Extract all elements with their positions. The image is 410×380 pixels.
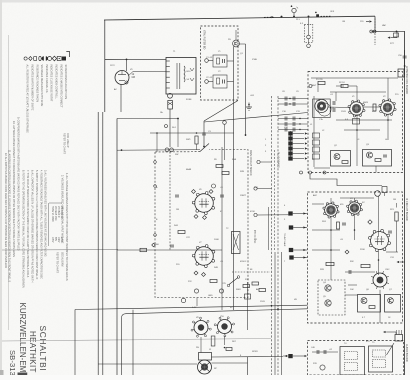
wire — [317, 83, 319, 92]
wire diagonal — [387, 343, 395, 355]
svg-text:AC: AC — [114, 88, 117, 91]
switch SW3 — [229, 278, 238, 285]
connector pin 10 — [289, 255, 293, 259]
terminal — [370, 30, 373, 33]
wire — [314, 167, 330, 169]
capacitor C40 — [317, 350, 319, 354]
trimmer — [320, 365, 325, 370]
terminal — [154, 185, 157, 188]
tube V6 6EA8 — [192, 192, 215, 215]
notes paragraph block — [4, 117, 68, 288]
capacitor C near top right — [374, 19, 376, 29]
bus wire horizontal — [75, 305, 308, 309]
terminal — [254, 187, 257, 190]
node junction — [177, 118, 179, 120]
terminal — [223, 121, 227, 125]
terminal — [154, 161, 157, 164]
transistor Q2 — [334, 154, 340, 160]
svg-text:AUDIO BOARD: AUDIO BOARD — [405, 344, 408, 362]
wire arrow — [271, 16, 274, 18]
wire — [177, 119, 179, 148]
resistor R63 — [211, 336, 215, 346]
diode D1 — [368, 220, 372, 224]
wire — [212, 362, 248, 364]
audio output board (dashed) — [308, 341, 404, 376]
tube V2 6EA8 — [379, 99, 396, 116]
resistor R4 — [373, 104, 376, 111]
svg-text:TUBE V1 6BZ6: TUBE V1 6BZ6 — [51, 206, 53, 222]
tube V4 6BE6 — [347, 200, 363, 216]
junction — [378, 259, 380, 261]
connector J3 — [404, 50, 406, 75]
wire — [117, 118, 178, 120]
svg-text:PH: PH — [196, 347, 199, 349]
svg-text:150V: 150V — [260, 301, 265, 303]
wire — [169, 109, 171, 147]
wires inside IF board — [312, 203, 324, 205]
svg-text:REFER TO CHART: REFER TO CHART — [56, 252, 59, 273]
bus wire vertical — [74, 310, 76, 376]
svg-text:ON: ON — [342, 21, 346, 23]
wire top right corner — [374, 16, 376, 31]
wire long vertical — [233, 47, 235, 311]
voltage chart table — [48, 203, 50, 246]
svg-text:8. REFER TO THE OPERATION SECT: 8. REFER TO THE OPERATION SECTION OF THE… — [22, 170, 25, 288]
trimmer — [194, 289, 198, 293]
tube V1 6BZ6 — [348, 100, 365, 117]
terminal — [307, 44, 311, 48]
svg-text:SLO: SLO — [172, 127, 177, 129]
wire — [330, 258, 332, 280]
resistor R2 — [341, 84, 348, 87]
svg-text:140V: 140V — [57, 237, 59, 243]
svg-text:47K: 47K — [372, 111, 376, 113]
connector pin 3 — [288, 141, 292, 145]
svg-text:27K: 27K — [188, 281, 192, 283]
resistor R40 — [195, 136, 198, 144]
wire — [247, 282, 249, 330]
wire — [375, 166, 377, 173]
resistor R30 — [369, 306, 375, 309]
bus wire vertical — [271, 96, 273, 375]
connector pin square — [288, 354, 292, 358]
svg-text:R2 1K: R2 1K — [339, 82, 345, 84]
transistor board box — [331, 151, 351, 167]
svg-text:HEATHKIT: HEATHKIT — [28, 331, 37, 373]
svg-text:6. ALL CAPACITOR VALUES IN UF: 6. ALL CAPACITOR VALUES IN UF UNLESS OTH… — [31, 170, 34, 283]
wire diagonal — [204, 113, 308, 123]
power transformer T1 box — [166, 58, 196, 95]
wire — [247, 357, 249, 375]
svg-text:VAC: VAC — [382, 24, 387, 27]
wire — [328, 106, 351, 109]
wire — [203, 121, 205, 146]
svg-text:INDICATES CHASSIS MTG CONNECT: INDICATES CHASSIS MTG CONNECT — [59, 65, 62, 109]
svg-text:KURZWELLEN-EM▌: KURZWELLEN-EM▌ — [17, 303, 28, 376]
wire — [348, 85, 357, 87]
svg-text:105V: 105V — [51, 237, 53, 243]
wire — [120, 84, 122, 112]
terminal — [154, 234, 157, 237]
tube V3 6BA6 — [323, 202, 339, 218]
svg-text:210V: 210V — [60, 237, 62, 243]
wire dashed — [169, 152, 171, 250]
transistor Q3 — [367, 152, 373, 158]
svg-text:6EA8: 6EA8 — [186, 168, 192, 171]
antenna coil board (dashed) — [308, 72, 403, 173]
svg-text:ALL RESISTORS RATED AT 1/2 WAT: ALL RESISTORS RATED AT 1/2 WATT UNLESS O… — [26, 65, 29, 134]
svg-text:OFF: OFF — [330, 11, 335, 13]
wire — [356, 150, 358, 166]
wire — [354, 198, 356, 202]
diode into right border — [397, 261, 400, 263]
wire — [260, 161, 271, 163]
tube V7 6BA6 — [192, 245, 215, 268]
transistor board box — [363, 150, 392, 167]
tube V5 6EA8 — [368, 229, 390, 251]
svg-text:RESISTANCE READINGS TAKEN: RESISTANCE READINGS TAKEN — [35, 65, 38, 103]
wire — [129, 72, 133, 76]
connector P4 — [395, 335, 403, 342]
wire dashed stub — [374, 34, 376, 46]
svg-text:117V: 117V — [110, 65, 115, 67]
svg-text:FUSE: FUSE — [186, 99, 192, 101]
svg-text:C1A: C1A — [316, 99, 321, 102]
bus wire vertical — [277, 96, 279, 375]
wire arrow — [369, 20, 372, 22]
node junction — [281, 16, 283, 18]
svg-text:1. ALL VOLTAGE READINGS TAKEN: 1. ALL VOLTAGE READINGS TAKEN WITH VTVM … — [65, 173, 68, 281]
wire — [345, 294, 358, 296]
svg-text:INDICATES WAFER NUMBER OF SWIT: INDICATES WAFER NUMBER OF SWITC — [31, 65, 34, 111]
speaker SP1 — [198, 360, 212, 374]
svg-text:INDICATES CLOCKWISE ROTAT: INDICATES CLOCKWISE ROTAT — [50, 65, 53, 102]
svg-text:C1 .05: C1 .05 — [206, 57, 213, 59]
svg-text:7. THIS CIRCUIT BOARD SHOWN IN: 7. THIS CIRCUIT BOARD SHOWN IN SCHEMATIC… — [26, 170, 29, 278]
svg-text:ANT: ANT — [312, 84, 317, 87]
components around tube V6 — [192, 190, 196, 194]
resistor R5 — [342, 161, 348, 164]
svg-text:1M: 1M — [393, 199, 396, 201]
IF circuit board (dashed) — [308, 192, 403, 323]
tube V10 6AQ5 — [214, 317, 234, 337]
capacitor group — [278, 118, 308, 120]
svg-text:12. ALL SWITCHES VIEWED FROM R: 12. ALL SWITCHES VIEWED FROM REAR AND SH… — [4, 153, 7, 268]
transformer windings — [176, 63, 178, 89]
schematic outer border left — [104, 20, 106, 112]
svg-text:88V: 88V — [54, 237, 56, 242]
svg-text:4. RESISTANCE READINGS TAKEN W: 4. RESISTANCE READINGS TAKEN WITH ALL TU… — [40, 170, 43, 279]
svg-text:INDICATES COAXIAL CA: INDICATES COAXIAL CA — [45, 65, 48, 93]
svg-text:PLUG BOARD: PLUG BOARD — [277, 152, 280, 168]
bus wire horizontal — [122, 309, 308, 375]
thermistor (dashed enclosure) — [304, 24, 313, 42]
wire — [378, 196, 380, 237]
wire — [387, 78, 389, 101]
terminal — [309, 85, 312, 88]
svg-text:IF CIRCUIT BOARD: IF CIRCUIT BOARD — [405, 198, 408, 221]
IF transformer T2 — [232, 232, 241, 254]
bus wire vertical — [132, 310, 134, 375]
svg-text:INDICATES KNOB CONTROLL: INDICATES KNOB CONTROLL — [55, 65, 58, 100]
svg-text:470K: 470K — [250, 211, 255, 213]
svg-text:ANTENNA COIL BOARD: ANTENNA COIL BOARD — [405, 66, 408, 94]
fuse F1 — [168, 93, 173, 98]
terminal — [254, 213, 257, 216]
wire arrow — [388, 36, 391, 38]
plug board dashed edge — [274, 150, 276, 250]
trimmer — [212, 184, 216, 188]
bus wire vertical — [274, 252, 276, 375]
transistor Q6 — [361, 298, 367, 304]
svg-text:MAIN CIRCUIT BOARD: MAIN CIRCUIT BOARD — [249, 150, 252, 176]
svg-text:KC: KC — [362, 202, 365, 204]
capacitor — [349, 270, 351, 274]
connector pin 2 — [288, 136, 292, 140]
output transformer box — [340, 347, 365, 376]
node junction — [308, 15, 310, 17]
svg-text:VOLTAGES MEASURED WITH 11 ME: VOLTAGES MEASURED WITH 11 ME — [40, 65, 43, 107]
amp box — [385, 295, 401, 313]
wire dashed — [232, 271, 270, 273]
phone jack box — [199, 353, 212, 361]
svg-text:V2 6EA8 OSC: V2 6EA8 OSC — [54, 206, 57, 221]
connector pin 5 — [288, 151, 292, 155]
svg-text:SW: SW — [175, 154, 178, 156]
svg-text:AVC: AVC — [313, 194, 318, 197]
connector pair — [117, 149, 200, 152]
svg-text:455KC: 455KC — [240, 261, 247, 263]
wire — [196, 298, 198, 307]
svg-text:FOR LINEUP: FOR LINEUP — [66, 133, 69, 148]
resistor R52 — [243, 285, 250, 288]
wire — [257, 188, 271, 190]
diode — [152, 243, 156, 247]
svg-text:455 KC OSC: 455 KC OSC — [253, 230, 255, 244]
capacitor — [388, 231, 392, 233]
legend key box — [24, 52, 70, 134]
transistor Q7 — [388, 298, 394, 304]
wire diagonal — [204, 101, 238, 122]
connector pin 9 — [289, 248, 293, 252]
transistor Q4 — [325, 285, 331, 291]
resistor R77 — [396, 31, 398, 33]
svg-text:3. ALL VOLTAGES MEASURED WITH: 3. ALL VOLTAGES MEASURED WITH LINE VOLTA… — [44, 170, 47, 257]
svg-text:10. LETTERED WIRES CONNECT TO: 10. LETTERED WIRES CONNECT TO CORRESPOND… — [12, 121, 15, 257]
svg-text:SPKR: SPKR — [252, 351, 258, 353]
svg-text:GND: GND — [208, 295, 213, 297]
wire — [245, 44, 247, 136]
transistor Q1 — [233, 40, 240, 47]
svg-text:100K: 100K — [214, 239, 219, 241]
svg-text:SCHALTBI: SCHALTBI — [38, 326, 48, 372]
trimmer — [219, 289, 223, 293]
svg-text:V4 6AQ5 AF: V4 6AQ5 AF — [60, 206, 63, 219]
node junction — [126, 59, 128, 61]
svg-text:SB-313: SB-313 — [8, 350, 17, 375]
wire — [336, 85, 344, 87]
wire — [126, 59, 128, 71]
resistor R66 — [226, 348, 232, 351]
crease line — [2, 249, 118, 251]
svg-text:S2A: S2A — [232, 158, 237, 161]
crystal Y2 — [205, 75, 234, 88]
crease line — [2, 339, 271, 342]
connector pin squares — [290, 131, 292, 160]
crystal Y1 — [205, 55, 234, 67]
wire — [378, 251, 380, 275]
terminal — [165, 125, 168, 128]
connector pin 4 — [288, 146, 292, 150]
svg-text:R1 220: R1 220 — [316, 79, 324, 81]
crystal filter board (dashed) — [201, 26, 239, 100]
svg-text:150V: 150V — [341, 111, 346, 113]
resistor R6 — [375, 159, 381, 162]
svg-text:10K: 10K — [350, 289, 354, 291]
bus wire horizontal — [98, 363, 197, 365]
amp box — [358, 295, 381, 313]
svg-text:1M: 1M — [176, 209, 179, 211]
svg-text:XTAL FILTER BD: XTAL FILTER BD — [203, 30, 206, 49]
resistor R65 — [245, 294, 251, 299]
switch SW1 — [316, 14, 319, 17]
terminal — [373, 30, 376, 33]
tube V9 rectifier — [115, 71, 129, 85]
tube V8 6AQ5 — [191, 317, 211, 337]
svg-text:V3 6BA6 IF: V3 6BA6 IF — [57, 206, 60, 218]
coil slug box — [353, 119, 360, 125]
svg-text:12AT7: 12AT7 — [240, 194, 247, 197]
svg-text:220K: 220K — [360, 249, 365, 251]
diode into border lower — [383, 331, 386, 333]
svg-text:9. COMPONENTS MARKED WITH ASTE: 9. COMPONENTS MARKED WITH ASTERISK ARE M… — [17, 117, 20, 251]
transistor Q5 — [325, 300, 331, 306]
wire — [235, 30, 237, 40]
diode D2 — [345, 250, 349, 254]
resistor R21 — [395, 212, 398, 221]
svg-text:C2 .05: C2 .05 — [206, 77, 213, 79]
connector pin 6 — [288, 156, 292, 160]
wires inside antenna board — [311, 77, 398, 79]
wire y=250 bus — [117, 249, 222, 251]
resistor — [337, 222, 340, 229]
svg-text:5. SWITCH SHOWN IN FULLY COUNT: 5. SWITCH SHOWN IN FULLY COUNTERCLOCKWIS… — [35, 170, 38, 279]
variable capacitor C1 — [313, 99, 335, 118]
terminal — [257, 160, 260, 163]
node junction — [293, 16, 295, 18]
resistor R23 — [361, 264, 370, 267]
svg-text:33K: 33K — [350, 261, 354, 263]
main circuit board (dashed) — [155, 150, 248, 298]
bus wire vertical — [97, 112, 99, 375]
svg-text:REFER TO CHART: REFER TO CHART — [63, 133, 66, 154]
connector pin 7 — [288, 211, 292, 215]
wire — [224, 336, 226, 345]
wire — [212, 356, 284, 359]
svg-text:6BZ6: 6BZ6 — [363, 102, 369, 104]
coil forms — [313, 133, 320, 138]
connector — [382, 187, 387, 193]
resistor R1 — [318, 81, 325, 84]
terminal circle — [375, 191, 381, 197]
svg-text:XTAL: XTAL — [252, 58, 258, 61]
capacitor — [342, 223, 346, 225]
svg-text:SCREWDRIVER ADJUST CON: SCREWDRIVER ADJUST CON — [64, 65, 67, 100]
resistor R22 — [326, 262, 334, 265]
terminal — [323, 171, 326, 174]
bus wire vertical — [102, 112, 104, 375]
wire AC line — [105, 58, 166, 60]
wire — [364, 106, 380, 108]
capacitor group — [278, 98, 308, 100]
svg-text:6.3V: 6.3V — [192, 307, 197, 309]
left page border — [8, 35, 10, 330]
svg-text:OSC: OSC — [385, 269, 390, 271]
pilot lamp PL1 — [292, 8, 296, 12]
components around tube V7 — [178, 231, 185, 234]
wire — [330, 198, 332, 203]
schematic outer border right — [404, 31, 406, 375]
resistor R54 — [259, 289, 266, 292]
svg-text:GB: GB — [132, 76, 136, 79]
wire stepped interconnect — [310, 174, 382, 186]
capacitor — [202, 133, 206, 135]
terminal — [181, 298, 185, 302]
capacitor C5 — [383, 155, 387, 157]
resistor R60 — [140, 248, 147, 251]
output transformer box — [369, 346, 393, 372]
svg-text:SEE ALIGNM: SEE ALIGNM — [61, 252, 64, 266]
schematic outer border top — [104, 16, 375, 20]
wire — [396, 203, 398, 208]
wire T3 to audio — [379, 290, 381, 323]
connector pin 8 — [289, 225, 293, 229]
wire — [257, 214, 288, 216]
wire — [221, 147, 223, 310]
svg-text:S2B: S2B — [240, 171, 245, 173]
terminal — [309, 171, 312, 174]
bus wire vertical — [281, 252, 283, 375]
ground symbol — [248, 103, 250, 108]
wire — [396, 221, 398, 252]
wire — [268, 207, 270, 250]
bus wire vertical — [116, 119, 118, 376]
wire — [200, 337, 202, 353]
terminal — [300, 171, 303, 174]
transistor sub-board (dashed) — [318, 280, 345, 315]
switch SW2 — [200, 144, 209, 152]
oscillator coil T3 — [371, 271, 389, 289]
wires above main board — [150, 132, 234, 134]
wire — [384, 193, 386, 197]
connector pin 1 — [288, 131, 292, 135]
resistor R53 — [252, 282, 259, 285]
